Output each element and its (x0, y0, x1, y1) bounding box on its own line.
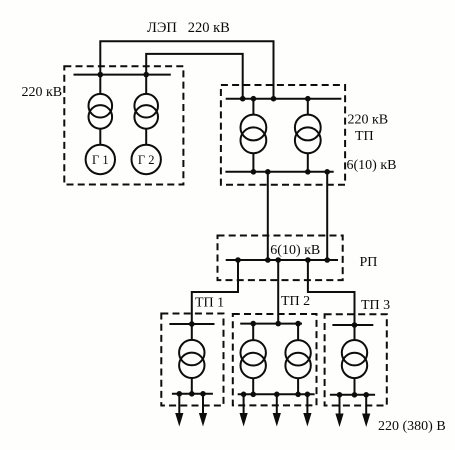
node: TP low bus junction 3 (305, 169, 311, 175)
transformer T8 (TP3) (342, 340, 367, 378)
wire T1 to G1 (99, 129, 101, 145)
svg-text:220 (380) В: 220 (380) В (378, 419, 446, 434)
node: TP2 low junction 1 (241, 392, 247, 398)
node: TP top bus junction 2 (251, 96, 257, 102)
node: TP top bus junction 4 (305, 96, 311, 102)
node: TP low bus junction 1 (251, 169, 257, 175)
node: RP bus junction 4 (305, 257, 311, 263)
TP3 dashed enclosure (325, 314, 387, 405)
node: TP top bus junction 3 (271, 96, 277, 102)
svg-text:РП: РП (360, 255, 378, 270)
bus TP2 low (238, 393, 315, 395)
bus 6(10)kV TP (225, 171, 333, 173)
svg-text:ЛЭП 220 кВ: ЛЭП 220 кВ (147, 20, 230, 36)
node: TP1 low junction 3 (200, 391, 206, 397)
wire TP1 bus to T5 (191, 324, 193, 340)
node: TP2 low junction 2 (250, 392, 256, 398)
generator G2 (132, 145, 161, 174)
load arrow TP2-b (273, 394, 281, 426)
svg-text:6(10) кВ: 6(10) кВ (270, 243, 320, 258)
svg-text:ТП 2: ТП 2 (281, 294, 310, 309)
bus RP (226, 259, 338, 261)
load arrow TP1-a (175, 394, 183, 427)
TP1 dashed enclosure (161, 314, 223, 406)
node: plant bus junction 2 (143, 72, 149, 78)
wire T2 to G2 (145, 129, 147, 145)
transformer T2 (plant) (134, 94, 158, 129)
bus TP1 top (169, 323, 214, 325)
wire T6 to TP2 low bus (252, 378, 254, 394)
node: TP1 low junction 1 (177, 391, 183, 397)
node: TP1 top junction (189, 321, 195, 327)
node: TP2 top junction 2 (275, 321, 281, 327)
RP dashed enclosure (218, 236, 343, 281)
load arrow TP3-a (335, 395, 343, 427)
node: TP2 low junction 4 (295, 392, 301, 398)
bus 220kV plant (74, 74, 171, 76)
load arrow TP3-b (362, 395, 370, 427)
wire T8 to TP3 low bus (354, 378, 356, 395)
wire TP2 bus to T7 (297, 324, 299, 341)
transformer T6 (TP2) (241, 340, 266, 378)
generator G1 (86, 145, 115, 174)
node: TP low bus junction 2 (265, 169, 271, 175)
wire TP bus to T4 (307, 99, 309, 115)
power plant dashed enclosure (64, 66, 183, 184)
transformer T1 (plant) (89, 94, 113, 129)
bus 220kV TP (226, 98, 342, 100)
feeder RP to TP1 (192, 260, 238, 324)
node: TP low bus junction 4 (324, 169, 330, 175)
node: TP3 low junction 2 (352, 392, 358, 398)
bus TP2 top (240, 323, 302, 325)
node: TP2 top junction 1 (250, 321, 256, 327)
wire T4 to TP low bus (307, 153, 309, 172)
node: TP2 low junction 3 (274, 392, 280, 398)
load arrow TP1-b (199, 394, 207, 427)
transformer T5 (TP1) (179, 340, 204, 378)
node: RP bus junction 1 (235, 257, 241, 263)
feeder RP to TP3 (308, 260, 355, 325)
svg-text:6(10) кВ: 6(10) кВ (347, 158, 397, 173)
load arrow TP2-a (240, 394, 248, 426)
transformer T7 (TP2) (285, 340, 310, 378)
feeder TP to RP cable 2 (326, 172, 328, 260)
node: TP top bus junction 1 (240, 96, 246, 102)
wire T5 to TP1 low bus (191, 378, 193, 394)
node: TP2 low junction 5 (305, 392, 311, 398)
wire T3 to TP low bus (252, 153, 254, 172)
wire TP2 bus to T6 (252, 324, 254, 341)
wire: upper LEP line W1 (100, 41, 273, 98)
svg-text:Г 2: Г 2 (138, 153, 155, 167)
transformer T3 (TP) (241, 115, 267, 154)
node: RP bus junction 3 (275, 257, 281, 263)
node: TP1 low junction 2 (189, 391, 195, 397)
bus TP3 low (330, 394, 375, 396)
load arrow TP2-c (303, 394, 311, 426)
svg-text:220 кВ: 220 кВ (348, 113, 389, 128)
node: RP bus junction 5 (324, 257, 330, 263)
node: TP2 top junction 3 (295, 321, 301, 327)
bus TP1 low (172, 393, 213, 395)
bus TP3 top (332, 324, 373, 326)
node: RP bus junction 2 (265, 257, 271, 263)
node: TP3 top junction (352, 322, 358, 328)
wire TP3 bus to T8 (354, 325, 356, 340)
node: plant bus junction 1 (98, 72, 104, 78)
svg-text:Г 1: Г 1 (92, 153, 109, 167)
wire T7 to TP2 low bus (297, 378, 299, 394)
substation TP dashed enclosure (221, 85, 345, 185)
wire: lower LEP line W2 (146, 54, 243, 99)
svg-text:ТП 3: ТП 3 (361, 298, 390, 313)
node: TP3 low junction 3 (363, 392, 369, 398)
feeder TP to RP cable 1 (267, 172, 269, 260)
transformer T4 (TP) (295, 115, 321, 154)
svg-text:ТП: ТП (355, 129, 374, 144)
node: TP3 low junction 1 (337, 392, 343, 398)
wire TP bus to T3 (252, 99, 254, 115)
feeder RP to TP2 (277, 260, 279, 324)
TP2 dashed enclosure (233, 314, 317, 405)
svg-text:ТП 1: ТП 1 (195, 296, 224, 311)
svg-text:220 кВ: 220 кВ (22, 85, 63, 100)
